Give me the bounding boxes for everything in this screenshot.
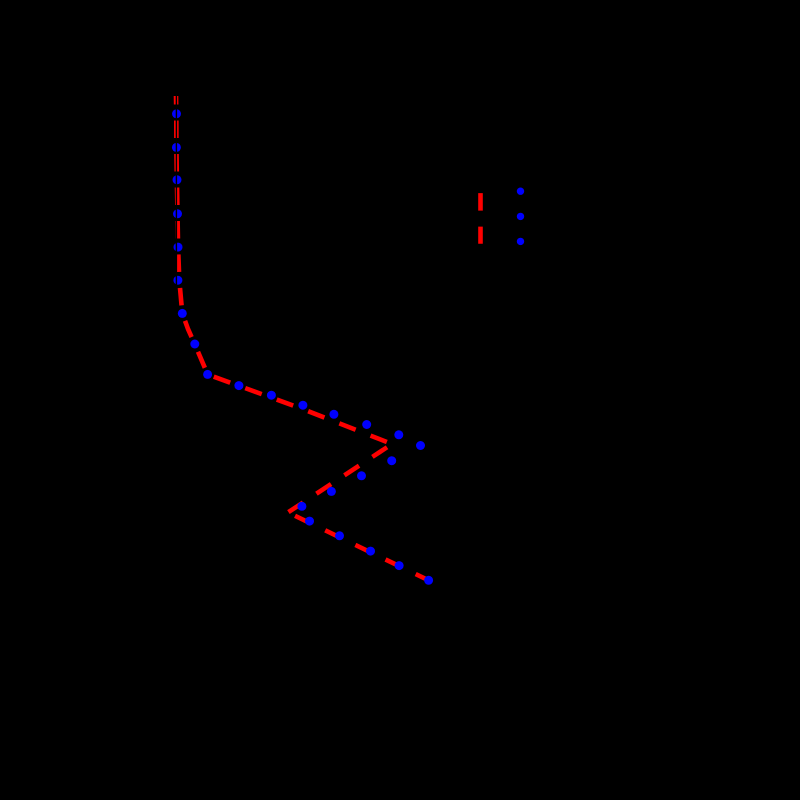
data point 21 <box>305 517 314 526</box>
data point 6 <box>173 276 182 285</box>
data point 25 <box>424 576 433 585</box>
data point 5 <box>174 243 183 252</box>
data point 12 <box>298 401 307 410</box>
data point 3 <box>173 175 182 184</box>
data point 22 <box>335 531 344 540</box>
left axis spine (black, drawn over data) <box>176 88 177 588</box>
model curve segment 2 (red dashed line, rising diagonal to right apex) <box>208 375 392 445</box>
data point 11 <box>267 391 276 400</box>
data point 20 <box>297 502 306 511</box>
data point 16 <box>416 441 425 450</box>
data point 1 <box>172 109 181 118</box>
data point 10 <box>234 381 243 390</box>
data point 8 <box>190 340 199 349</box>
data point 24 <box>395 561 404 570</box>
data point 23 <box>366 547 375 556</box>
data point 14 <box>362 420 371 429</box>
legend point sample 2 <box>517 213 524 220</box>
data point 7 <box>178 309 187 318</box>
model curve segment 1 (red dashed line, upper vertical part and bend) <box>176 96 208 375</box>
legend point sample 1 <box>517 188 524 195</box>
data point 15 <box>394 430 403 439</box>
legend line sample (red dashed, vertical) <box>478 193 483 244</box>
data point 18 <box>357 471 366 480</box>
model curve segment 3 (red dashed line, right apex down-left to left apex) <box>288 445 390 512</box>
model curve segment 4 (red dashed line, left apex down-right to end) <box>288 512 429 580</box>
data point 19 <box>327 487 336 496</box>
data point 9 <box>203 370 212 379</box>
legend point sample 3 <box>517 238 524 245</box>
data point 13 <box>329 410 338 419</box>
data point 17 <box>387 456 396 465</box>
data point 2 <box>172 143 181 152</box>
data point 4 <box>173 209 182 218</box>
